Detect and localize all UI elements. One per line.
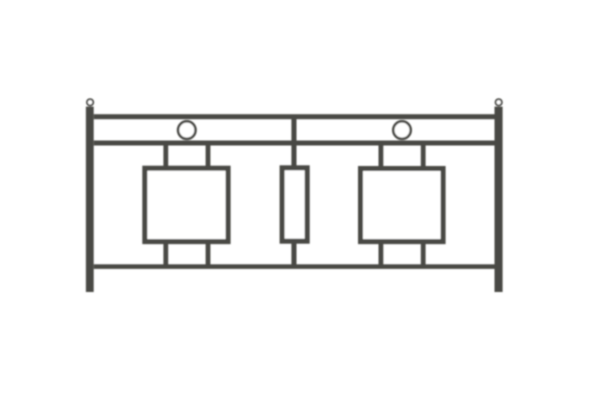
right panel bottom-right link: [421, 242, 426, 267]
right ring finial: [496, 99, 502, 105]
left square panel: [145, 168, 228, 241]
top rail lower bar: [94, 141, 495, 146]
center slat panel: [282, 168, 307, 241]
right square panel: [361, 169, 444, 242]
bottom rail: [94, 264, 495, 269]
right rail circle ornament: [393, 121, 411, 139]
left rail circle ornament: [178, 121, 196, 139]
right panel top-right link: [421, 143, 426, 168]
left panel bottom-left link: [163, 242, 168, 267]
right post: [495, 107, 503, 292]
left panel top-left link: [163, 143, 168, 168]
center baluster upper segment: [291, 116, 296, 168]
left post: [86, 107, 94, 292]
right panel top-left link: [379, 143, 384, 168]
left panel top-right link: [206, 143, 211, 168]
left panel bottom-right link: [206, 242, 211, 267]
center baluster lower segment: [291, 241, 296, 267]
left ring finial: [87, 99, 93, 105]
top rail upper bar: [94, 114, 495, 119]
right panel bottom-left link: [379, 242, 384, 267]
